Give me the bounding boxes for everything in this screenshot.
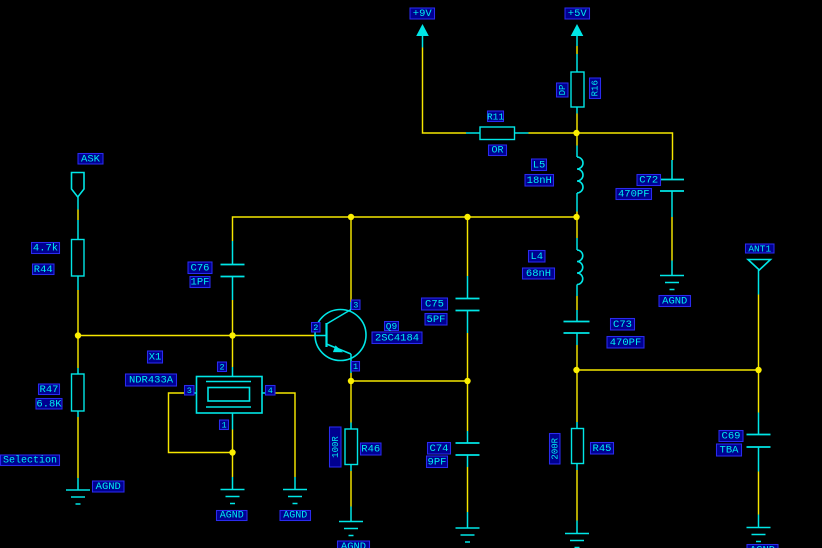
svg-text:470PF: 470PF [610,337,642,349]
resistor R11 body [480,127,515,140]
pin Q9 emitter stub [350,354,352,373]
label C76 [188,262,212,274]
svg-text:18nH: 18nH [527,175,552,187]
svg-text:R16: R16 [591,80,601,96]
wire R44 bottom to rail [77,290,79,336]
pin +9V stem [422,36,424,48]
capacitor C74 plates [456,443,480,455]
svg-text:OR: OR [491,145,503,156]
wire C72 bottom to ground [671,217,673,261]
label DP [557,83,569,97]
label 1 [352,362,360,372]
wire L5 bottom to L4 top [576,212,578,239]
wire L4 bottom to C73 [576,296,578,310]
ground AGND at R46 [339,522,363,536]
svg-text:1: 1 [353,362,358,372]
label ANT1 [746,244,775,255]
svg-text:AGND: AGND [341,541,366,548]
pin L4 top [576,238,578,250]
svg-text:9PF: 9PF [428,456,447,468]
svg-text:C69: C69 [722,431,741,443]
svg-text:2SC4184: 2SC4184 [375,332,419,344]
svg-text:C75: C75 [425,299,444,311]
pin L5 top [576,146,578,158]
transistor Q9 emitter line [327,344,352,354]
junction ANT1/C69 rail [755,367,761,373]
pin C69 bottom [758,447,760,472]
pin R46 ground stem [350,507,352,522]
label AGND [280,511,311,522]
svg-text:1PF: 1PF [191,277,210,289]
label 2SC4184 [372,332,422,344]
svg-text:TBA: TBA [720,445,740,457]
label +5V [565,8,590,20]
pin R45 top [576,422,578,429]
label 2 [312,323,321,333]
wire X1 pin4 to ground [273,393,296,477]
pin L5 bottom [576,193,578,212]
wire R45 bottom to ground [576,470,578,521]
pin X1 ground stem 1 [232,477,234,490]
transistor Q9 circle [315,310,366,361]
label +9V [410,8,435,20]
junction X1 pin1/pin3 [229,449,235,455]
label OR [489,145,507,156]
wire node to C69 top [758,370,760,413]
pin R46 bottom [350,465,352,472]
pin R45 bottom [576,464,578,471]
svg-text:Selection: Selection [3,454,57,466]
capacitor C73 plates [564,322,590,334]
wire rail node-B y217 with C76 drop [233,217,577,241]
label 3 [352,300,361,310]
svg-text:3: 3 [353,300,358,310]
ground AGND at C74 [456,528,480,542]
ground AGND at C72 [660,276,684,290]
resistor R44 body [72,240,85,277]
wire node to C74 top [467,381,469,431]
pin C73 bottom [576,333,578,345]
pin C74 bottom [467,455,469,467]
wire rail to X1 pin2 [232,336,234,368]
power +9V arrow [416,24,429,36]
pin ANT1 stem [758,270,760,295]
svg-text:AGND: AGND [220,511,244,522]
pin C69 ground stem [758,515,760,528]
transistor Q9 base bar [325,323,327,347]
inductor L4 coil [577,250,583,285]
svg-text:C72: C72 [639,175,658,187]
label 4 [266,386,276,396]
label NDR433A [126,374,177,387]
pin C76 bottom [232,277,234,301]
svg-text:C76: C76 [191,262,210,274]
wire X1 pin1 to ground node [232,430,234,478]
ground AGND at X1 pin1 [221,490,245,504]
label C74 [428,443,451,455]
resistor R16 body [571,72,584,107]
svg-text:AGND: AGND [750,545,775,548]
ground AGND at R45 [565,534,589,548]
label AGND [338,541,370,548]
junction C75/C74 [464,378,470,384]
inductor L5 coil [577,157,583,193]
pin R44 top [77,220,79,240]
svg-text:ASK: ASK [81,153,101,165]
wire C74 bottom to ground [467,467,469,512]
pin Q9 collector stub [350,302,352,310]
wire R47 bottom to ground [77,417,79,478]
svg-text:R11: R11 [487,111,504,122]
crystal X1 bottom plate [206,406,251,408]
svg-text:2: 2 [313,323,318,333]
junction C75 rail [464,214,470,220]
pin C76 top [232,241,234,265]
resistor R45 body [572,429,584,464]
ground AGND at R47 [66,490,90,504]
label AGND [747,545,778,548]
crystal X1 inner body [208,388,250,402]
wire C75 bottom to node [467,333,469,381]
label R16 [590,78,601,99]
capacitor C76 plates [221,265,245,277]
wire rail to R47 top [77,336,79,369]
wire ANT1 to node [758,295,760,371]
junction emitter/R46 [348,378,354,384]
antenna ANT1 symbol [748,260,771,271]
label 1PF [190,277,210,289]
wire +5V to R16 [576,46,578,54]
pin R16 top [576,54,578,72]
label R11 [487,111,504,122]
label L5 [532,159,547,171]
pin C72 bottom [671,191,673,217]
pin R45 ground stem [576,521,578,534]
label C73 [611,319,635,331]
junction collector rail [348,214,354,220]
junction R44/R47 rail [75,332,81,338]
wire emitter rail y381 [351,380,468,382]
svg-text:200R: 200R [550,437,560,459]
svg-text:1: 1 [221,420,226,430]
label AGND [93,481,125,493]
pin R46 top [350,423,352,430]
power +5V arrow [571,24,584,36]
label L4 [529,251,546,263]
port ASK symbol [72,173,85,198]
label Selection [1,454,60,466]
ground AGND at X1 pin4 [283,490,307,504]
wire C69 bottom to ground [758,472,760,515]
pin C73 top [576,310,578,322]
svg-text:ANT1: ANT1 [748,244,771,255]
wire X1 pin3 loop [169,393,233,453]
label Q9 [385,321,399,332]
svg-text:2: 2 [219,362,224,372]
pin X1 ground stem 4 [294,477,296,490]
wire C73 bottom to node [576,345,578,370]
wire +9V vertical and rail to R11 [423,48,467,134]
pin R11 left [466,132,480,134]
svg-text:L5: L5 [533,159,546,171]
svg-text:6.8K: 6.8K [36,398,62,410]
label 470PF [607,337,644,349]
label C72 [637,175,661,187]
svg-text:Q9: Q9 [386,321,398,332]
svg-text:C74: C74 [430,443,449,455]
pin R44 bottom [77,276,79,290]
svg-text:4.7k: 4.7k [33,243,58,255]
resistor R47 body [72,374,85,411]
label 3 [185,386,195,396]
pin C72 top [671,160,673,180]
pin C75 bottom [467,311,469,334]
junction C76/X1 rail [229,332,235,338]
crystal X1 top plate [206,381,251,383]
pin X1-1 stub [232,413,234,430]
label 2 [218,362,227,372]
wire node to R45 top [576,370,578,422]
wire R46 bottom to ground [350,471,352,507]
junction L5/L4 rail [573,214,579,220]
transistor Q9 collector line [327,310,352,325]
crystal X1 outer box [197,377,263,414]
pin X1-2 stub [232,367,234,377]
resistor R46 body [345,429,358,465]
svg-text:R46: R46 [361,444,380,456]
wire antenna rail y370 [577,369,759,371]
label AGND [659,296,691,308]
label 6.8K [36,398,62,410]
svg-text:X1: X1 [149,352,162,364]
svg-text:AGND: AGND [283,511,307,522]
pin ASK port stem [77,197,79,210]
label R47 [39,384,60,396]
label AGND [217,511,248,522]
svg-text:5PF: 5PF [427,314,446,326]
wire Q9 emitter to node [350,373,352,381]
svg-text:+9V: +9V [413,8,433,20]
wire base rail y335 [78,335,315,337]
svg-text:470PF: 470PF [618,189,650,201]
junction R11/R16/L5/C72 [573,130,579,136]
svg-text:R45: R45 [593,443,612,455]
pin X1-3 stub [187,392,197,394]
pin Q9 base [315,335,327,337]
label 18nH [525,175,554,187]
pin C75 top [467,276,469,299]
capacitor C75 plates [456,299,480,311]
label 68nH [523,268,555,280]
label R46 [361,443,382,456]
label 4.7k [32,243,60,255]
svg-text:AGND: AGND [96,481,121,493]
svg-text:R44: R44 [34,264,53,276]
svg-text:C73: C73 [613,319,632,331]
pin R16 bottom [576,107,578,114]
wire R11 right to node and C72 drop [529,133,673,160]
wire R16 bottom through node to L5 [576,114,578,146]
label R44 [33,264,55,276]
label 9PF [427,456,448,468]
label TBA [717,444,742,457]
capacitor C69 plates [747,435,771,448]
svg-text:100R: 100R [331,436,341,458]
label 5PF [425,314,447,326]
junction C73/R45 rail [573,367,579,373]
svg-text:3: 3 [187,386,192,396]
label 1 [220,420,229,430]
svg-text:4: 4 [268,386,273,396]
pin +5V stem [576,36,578,46]
pin X1-4 stub [262,392,273,394]
pin C74 top [467,431,469,443]
capacitor C72 plates [660,180,684,192]
label X1 [148,351,163,364]
label 200R [550,434,561,465]
pin L4 bottom [576,285,578,297]
wire node to R46 top [350,381,352,423]
label C69 [719,431,743,443]
pin C69 top [758,413,760,435]
ground AGND at C69 [747,528,771,542]
svg-text:68nH: 68nH [526,268,551,280]
label R45 [591,443,614,455]
label 100R [330,427,342,467]
pin C72 ground stem [671,261,673,276]
label C75 [422,298,448,311]
svg-text:NDR433A: NDR433A [129,375,174,387]
svg-text:R47: R47 [40,384,59,396]
label 470PF [616,189,652,201]
pin R47 ground stem [77,478,79,490]
wire C76 bottom to base rail [232,300,234,336]
wire ASK port to R44 [77,210,79,221]
svg-text:DP: DP [558,85,568,96]
transistor Q9 emitter arrow [333,345,343,352]
pin C74 ground stem [467,512,469,528]
wire Q9 collector up to rail [350,217,352,302]
svg-text:AGND: AGND [662,296,687,308]
pin R47 top [77,368,79,374]
svg-text:+5V: +5V [568,8,588,20]
pin R47 bottom [77,411,79,417]
pin R11 right [515,132,529,134]
svg-text:L4: L4 [530,251,543,263]
label ASK [78,153,103,165]
wire node-B to C75 top [467,217,469,276]
